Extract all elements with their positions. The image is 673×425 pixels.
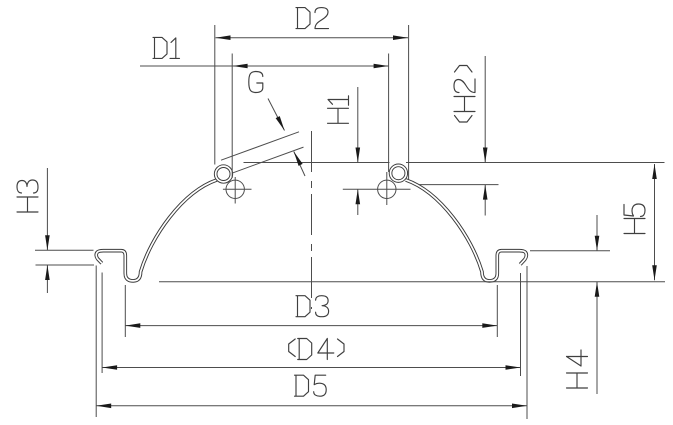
left curled tube bead — [216, 166, 232, 182]
dimension D5 — [96, 266, 527, 420]
left ring rod circle — [226, 180, 244, 198]
dimension (D4) — [102, 273, 520, 377]
vertical centerline — [311, 131, 313, 309]
dimension D1 — [140, 54, 389, 179]
right ring rod circle — [378, 180, 396, 198]
hook bottom extension left (H3 lower ref) — [36, 264, 95, 266]
dimension D3 — [125, 285, 497, 337]
rod diameter label G with leader — [249, 72, 263, 93]
flange top extension left (H3 upper ref) — [35, 249, 94, 251]
seating table line — [159, 281, 665, 283]
lid cross-section right half sheet (dome, valley, drop, flange, hook) — [406, 180, 527, 281]
right ring center marks — [343, 172, 411, 205]
left ring center marks — [223, 177, 252, 204]
dimension H5 — [654, 164, 656, 280]
dimension H1 — [357, 87, 359, 215]
lid cross-section left half sheet (hook, flange, drop, valley, dome) — [96, 180, 217, 281]
dimension (H2) — [484, 56, 486, 216]
right curled tube bead — [391, 165, 407, 181]
dimension D2 — [215, 25, 409, 180]
dome surface reference line for H2 — [419, 184, 499, 186]
dimension H3 — [46, 168, 48, 293]
top reference line (tube top plane) — [244, 162, 665, 164]
dimension H4 — [596, 215, 598, 394]
flange top extension right (H4 upper ref) — [530, 250, 610, 252]
handle rod G — [221, 132, 304, 173]
